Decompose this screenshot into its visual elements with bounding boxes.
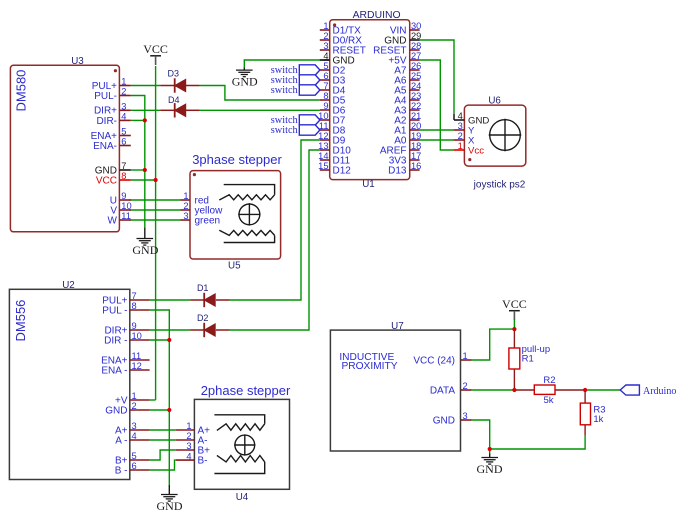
svg-text:DM580: DM580 (13, 70, 28, 112)
svg-text:R2: R2 (543, 375, 555, 386)
svg-text:DM556: DM556 (13, 300, 28, 342)
svg-text:19: 19 (411, 131, 421, 141)
svg-text:16: 16 (411, 161, 421, 171)
svg-text:12: 12 (132, 361, 142, 371)
svg-text:ENA -: ENA - (101, 365, 127, 376)
svg-text:11: 11 (132, 351, 142, 361)
svg-text:14: 14 (318, 151, 328, 161)
svg-text:11: 11 (121, 211, 131, 221)
svg-text:2: 2 (458, 131, 463, 141)
svg-text:green: green (195, 215, 221, 226)
svg-text:GND: GND (477, 462, 503, 476)
svg-text:U3: U3 (71, 56, 84, 67)
svg-text:10: 10 (121, 201, 131, 211)
svg-text:3: 3 (323, 41, 328, 51)
svg-text:U2: U2 (62, 280, 75, 291)
svg-text:5k: 5k (543, 395, 553, 406)
svg-text:1: 1 (132, 391, 137, 401)
svg-text:B-: B- (198, 456, 208, 467)
svg-text:4: 4 (132, 431, 137, 441)
svg-text:2: 2 (132, 401, 137, 411)
svg-text:18: 18 (411, 141, 421, 151)
svg-text:GND: GND (132, 243, 158, 257)
svg-text:10: 10 (132, 331, 142, 341)
svg-text:3: 3 (186, 441, 191, 451)
svg-text:6: 6 (323, 71, 328, 81)
svg-text:switch: switch (271, 125, 299, 136)
svg-text:PUL -: PUL - (102, 305, 127, 316)
svg-text:ENA-: ENA- (93, 141, 117, 152)
svg-text:3phase stepper: 3phase stepper (192, 152, 282, 167)
svg-text:Arduino: Arduino (643, 386, 676, 397)
svg-text:VCC: VCC (143, 42, 168, 56)
svg-text:GND: GND (232, 75, 258, 89)
svg-text:8: 8 (323, 91, 328, 101)
svg-text:15: 15 (318, 161, 328, 171)
svg-text:1: 1 (463, 351, 468, 361)
svg-text:D2: D2 (197, 313, 209, 323)
svg-text:D13: D13 (388, 165, 407, 176)
svg-text:U6: U6 (488, 95, 501, 106)
svg-text:DIR -: DIR - (104, 335, 127, 346)
svg-text:U1: U1 (362, 179, 375, 190)
svg-text:20: 20 (411, 121, 421, 131)
svg-text:28: 28 (411, 41, 421, 51)
svg-text:PROXIMITY: PROXIMITY (341, 361, 397, 372)
svg-text:GND: GND (433, 415, 455, 426)
svg-text:switch: switch (271, 85, 299, 96)
svg-text:25: 25 (411, 71, 421, 81)
svg-text:2: 2 (183, 201, 188, 211)
svg-text:GND: GND (105, 405, 127, 416)
svg-text:7: 7 (323, 81, 328, 91)
svg-text:21: 21 (411, 111, 421, 121)
svg-text:VCC: VCC (502, 297, 527, 311)
svg-text:23: 23 (411, 91, 421, 101)
svg-text:U7: U7 (391, 321, 404, 332)
svg-text:6: 6 (132, 461, 137, 471)
svg-text:12: 12 (318, 131, 328, 141)
svg-text:VCC (24): VCC (24) (413, 355, 455, 366)
svg-text:2phase stepper: 2phase stepper (201, 383, 291, 398)
svg-text:1: 1 (186, 421, 191, 431)
svg-text:3: 3 (121, 102, 126, 112)
svg-text:1: 1 (183, 191, 188, 201)
svg-text:9: 9 (323, 101, 328, 111)
svg-text:29: 29 (411, 31, 421, 41)
svg-text:2: 2 (121, 87, 126, 97)
svg-text:2: 2 (463, 381, 468, 391)
svg-text:D1: D1 (197, 283, 209, 293)
svg-text:D12: D12 (333, 165, 352, 176)
svg-text:PUL-: PUL- (94, 91, 117, 102)
svg-text:3: 3 (183, 211, 188, 221)
svg-text:4: 4 (186, 451, 191, 461)
svg-text:1k: 1k (593, 414, 603, 425)
svg-text:26: 26 (411, 61, 421, 71)
svg-text:4: 4 (323, 51, 328, 61)
svg-text:7: 7 (121, 161, 126, 171)
svg-text:1: 1 (121, 77, 126, 87)
svg-text:1: 1 (458, 141, 463, 151)
svg-text:5: 5 (132, 451, 137, 461)
svg-text:VCC: VCC (96, 175, 117, 186)
svg-text:13: 13 (318, 141, 328, 151)
svg-text:joystick ps2: joystick ps2 (473, 180, 526, 191)
svg-text:3: 3 (463, 411, 468, 421)
svg-text:R1: R1 (522, 354, 534, 365)
svg-text:3: 3 (132, 421, 137, 431)
svg-text:DIR-: DIR- (96, 116, 117, 127)
svg-text:2: 2 (323, 31, 328, 41)
svg-text:27: 27 (411, 51, 421, 61)
svg-text:22: 22 (411, 101, 421, 111)
svg-text:5: 5 (323, 61, 328, 71)
svg-text:24: 24 (411, 81, 421, 91)
svg-text:30: 30 (411, 21, 421, 31)
svg-text:7: 7 (132, 291, 137, 301)
svg-text:6: 6 (121, 137, 126, 147)
svg-text:A -: A - (115, 435, 127, 446)
svg-text:W: W (108, 215, 118, 226)
svg-text:2: 2 (186, 431, 191, 441)
svg-text:Vcc: Vcc (468, 145, 484, 156)
svg-text:4: 4 (458, 111, 463, 121)
svg-text:1: 1 (323, 21, 328, 31)
svg-text:4: 4 (121, 112, 126, 122)
svg-text:U5: U5 (228, 261, 241, 272)
svg-text:ARDUINO: ARDUINO (353, 10, 401, 21)
svg-text:5: 5 (121, 127, 126, 137)
svg-text:D4: D4 (168, 95, 180, 105)
svg-text:3: 3 (458, 121, 463, 131)
svg-text:8: 8 (132, 301, 137, 311)
svg-text:DATA: DATA (430, 385, 456, 396)
svg-text:D3: D3 (168, 69, 180, 79)
svg-text:GND: GND (157, 499, 183, 513)
svg-text:9: 9 (132, 321, 137, 331)
svg-text:9: 9 (121, 191, 126, 201)
svg-text:B -: B - (115, 465, 128, 476)
svg-text:8: 8 (121, 171, 126, 181)
svg-text:U4: U4 (236, 492, 249, 503)
svg-text:17: 17 (411, 151, 421, 161)
